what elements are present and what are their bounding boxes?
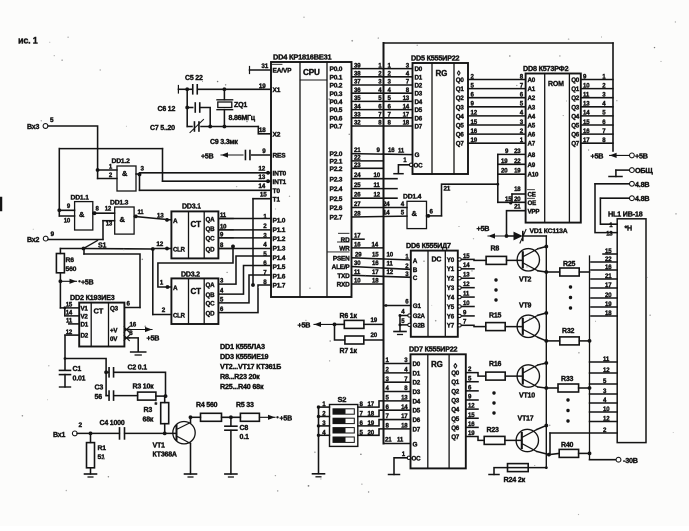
wire S2 gnd	[313, 407, 325, 477]
capacitor C3 56	[95, 385, 114, 401]
svg-text:Q0: Q0	[571, 77, 580, 84]
svg-text:25: 25	[354, 182, 361, 189]
svg-text:A8: A8	[528, 152, 536, 159]
wire 4.8V b to pin1	[600, 198, 617, 224]
svg-text:&: &	[412, 209, 418, 218]
wire T0 row	[140, 183, 272, 190]
power +5V to C9	[201, 152, 243, 160]
svg-text:17: 17	[401, 413, 408, 420]
svg-text:13: 13	[463, 272, 470, 279]
svg-text:17: 17	[605, 282, 612, 289]
svg-text:DD3.1: DD3.1	[182, 204, 201, 211]
svg-text:Q6: Q6	[451, 425, 460, 432]
svg-text:G: G	[413, 442, 418, 449]
resistor R7 1k	[335, 324, 384, 355]
svg-text:29: 29	[355, 251, 362, 258]
svg-text:P0.4: P0.4	[330, 99, 343, 106]
IC DD7 OC pin	[402, 451, 421, 463]
wire INT1 row	[163, 174, 272, 183]
svg-text:20: 20	[368, 429, 375, 436]
svg-text:17: 17	[403, 112, 410, 119]
svg-text:Q4: Q4	[451, 407, 460, 414]
svg-text:VT9: VT9	[519, 303, 532, 310]
node C5-left	[185, 87, 189, 91]
svg-text:R32: R32	[562, 328, 575, 335]
svg-text:A10: A10	[528, 172, 540, 179]
svg-text:Y4: Y4	[447, 294, 455, 301]
svg-text:15: 15	[471, 119, 478, 126]
svg-text:+5В: +5В	[477, 224, 490, 233]
wire A9 row	[498, 158, 526, 165]
wire TXD row	[352, 269, 411, 278]
resistor R15	[461, 313, 505, 331]
svg-text:68к: 68к	[143, 417, 154, 424]
wire DD5 OC gnd	[394, 165, 409, 174]
svg-text:D5: D5	[415, 107, 423, 114]
IC DD2 right pins	[110, 306, 137, 343]
svg-text:11: 11	[138, 210, 145, 216]
wire PSEN row	[352, 251, 411, 260]
IC DD8 K573RF2 body	[523, 64, 581, 223]
svg-text:33: 33	[354, 112, 361, 119]
node R1 top	[89, 432, 93, 436]
svg-text:13: 13	[403, 95, 410, 102]
svg-text:DD3.2: DD3.2	[181, 272, 200, 279]
svg-text:D1: D1	[413, 370, 421, 377]
svg-text:22: 22	[605, 256, 612, 263]
svg-text:DD8 К573РФ2: DD8 К573РФ2	[523, 64, 569, 73]
wire P2.5 row	[352, 192, 398, 199]
svg-text:D3: D3	[413, 389, 421, 396]
svg-text:QC: QC	[206, 236, 216, 243]
wire P2.3 row	[352, 172, 398, 179]
svg-text:VT1: VT1	[153, 443, 166, 450]
svg-text:17: 17	[583, 137, 590, 144]
svg-text:20: 20	[371, 332, 378, 339]
wire D2 down to C1	[64, 335, 66, 370]
svg-text:34: 34	[354, 103, 361, 110]
svg-text:17: 17	[354, 233, 361, 240]
svg-text:+5В: +5В	[280, 416, 293, 423]
svg-text:P2.4: P2.4	[330, 186, 343, 193]
svg-text:Q4: Q4	[571, 113, 580, 120]
transistor VT10	[505, 365, 539, 400]
svg-text:A4: A4	[528, 113, 536, 120]
svg-text:19: 19	[368, 420, 375, 427]
display HL1 IV-18 body	[608, 209, 646, 442]
svg-text:15: 15	[66, 303, 73, 309]
svg-text:R6 1к: R6 1к	[340, 313, 358, 320]
svg-text:11: 11	[397, 437, 404, 444]
ground VT1	[185, 474, 197, 477]
resistor R5 33	[236, 402, 259, 421]
wire VT2 collector row	[538, 270, 560, 274]
wire 0V to ground	[130, 338, 139, 352]
svg-text:14: 14	[583, 110, 590, 117]
svg-text:21: 21	[385, 437, 392, 444]
svg-text:R16: R16	[489, 361, 502, 368]
svg-text:RXD: RXD	[337, 282, 350, 289]
svg-text:+5В: +5В	[147, 334, 160, 343]
svg-text:38: 38	[354, 71, 361, 78]
wire Vx2 row	[48, 221, 103, 240]
capacitor C9 on RES	[210, 139, 271, 160]
gate DD1.3	[103, 200, 134, 235]
wire P2.7 to DD1.4	[352, 210, 408, 218]
node R3 right	[156, 394, 168, 398]
wire DD1.4 out	[426, 209, 441, 218]
svg-text:CE: CE	[528, 192, 536, 199]
resistor R23	[466, 427, 505, 444]
svg-text:КТ368А: КТ368А	[153, 452, 177, 459]
svg-text:G2A: G2A	[413, 313, 426, 320]
svg-text:18: 18	[514, 186, 521, 193]
svg-text:DD1 К555ЛА3: DD1 К555ЛА3	[220, 342, 265, 351]
svg-text:10: 10	[374, 172, 381, 179]
power +5V out R5	[259, 415, 292, 423]
svg-text:CLR: CLR	[173, 248, 186, 254]
wire WR stub	[352, 241, 384, 248]
bus collector vertical	[545, 236, 547, 468]
svg-text:19: 19	[514, 168, 521, 175]
wires DD3.1 outputs	[218, 213, 233, 249]
node X1-ZQ1	[223, 87, 227, 91]
svg-text:B: B	[413, 267, 418, 274]
svg-text:VT2: VT2	[519, 277, 532, 284]
svg-text:Q6: Q6	[571, 132, 580, 139]
svg-text:CLR: CLR	[173, 314, 186, 320]
svg-text:G1: G1	[413, 303, 422, 310]
svg-text:12: 12	[463, 281, 470, 288]
capacitor C2 0.1	[106, 365, 147, 377]
ground C8	[225, 474, 237, 477]
svg-text:15: 15	[260, 192, 267, 199]
svg-text:RD: RD	[341, 237, 350, 244]
svg-text:Q5: Q5	[456, 123, 465, 130]
svg-text:12: 12	[471, 110, 478, 117]
wire bottom rail to X2	[187, 127, 271, 135]
transistor VT9	[505, 303, 539, 338]
svg-text:OC: OC	[412, 456, 422, 463]
wires S2 left pins	[317, 401, 330, 437]
wire VT17 emitter to bus	[537, 424, 548, 430]
svg-text:VPP: VPP	[528, 208, 540, 215]
svg-text:2: 2	[79, 422, 83, 429]
svg-text:12: 12	[387, 269, 394, 276]
bus resistor vertical	[589, 256, 591, 460]
wire C7 vert	[186, 108, 188, 127]
wire DD1.1 out to DD1.3	[93, 207, 115, 216]
IC DD8 pin labels	[528, 77, 580, 215]
svg-text:+5В: +5В	[591, 151, 604, 160]
svg-text:CT: CT	[191, 220, 202, 229]
svg-text:5: 5	[50, 117, 54, 124]
svg-text:*Н: *Н	[625, 226, 633, 233]
svg-text:A0: A0	[528, 77, 536, 84]
svg-text:X1: X1	[273, 87, 281, 94]
text component list	[220, 342, 281, 391]
diode VD1 KS113A	[507, 228, 568, 243]
svg-text:ZQ1: ZQ1	[234, 102, 247, 109]
svg-text:A6: A6	[528, 132, 536, 139]
svg-text:D6: D6	[413, 417, 421, 424]
svg-text:Q1: Q1	[456, 86, 465, 93]
wire DD3.2 CLR	[153, 307, 172, 315]
gate DD1.4	[403, 194, 427, 229]
IC DD3.1 body	[171, 204, 218, 259]
svg-text:32: 32	[354, 120, 361, 127]
terminal Vx1	[53, 422, 83, 439]
svg-text:12: 12	[603, 415, 610, 422]
wire A10 row	[498, 168, 526, 175]
switch S2 body	[330, 395, 358, 446]
wires HL1 grid pins upper	[591, 248, 617, 317]
svg-text:Q0: Q0	[451, 370, 460, 377]
text figure caption	[18, 36, 38, 46]
svg-text:DD2 К193ИЕ3: DD2 К193ИЕ3	[70, 293, 115, 302]
svg-text:A7: A7	[528, 141, 536, 148]
svg-text:R8...R23 20к: R8...R23 20к	[220, 372, 260, 381]
wire C2 to R3 node	[114, 372, 166, 396]
svg-text:D2: D2	[413, 380, 421, 387]
pin 31 EA stub	[250, 63, 272, 74]
svg-text:15: 15	[605, 248, 612, 255]
svg-text:16: 16	[471, 128, 478, 135]
wire R32 to bus	[579, 339, 591, 343]
svg-text:A: A	[173, 218, 178, 225]
svg-text:23: 23	[514, 148, 521, 155]
svg-text:QB: QB	[206, 292, 216, 299]
wire VT9 collector row	[538, 337, 560, 343]
svg-text:QC: QC	[206, 301, 216, 308]
svg-text:19: 19	[371, 317, 378, 324]
svg-text:0.1: 0.1	[240, 434, 249, 441]
svg-text:560: 560	[66, 266, 77, 273]
svg-text:+5В: +5В	[81, 280, 94, 287]
svg-text:R3: R3	[144, 407, 153, 414]
svg-text:20: 20	[514, 196, 521, 203]
wire DD2 D2 row	[65, 334, 79, 336]
svg-text:Q2: Q2	[456, 95, 465, 102]
wire DD1.3 out to DD3.1 A	[134, 210, 171, 222]
svg-text:G2B: G2B	[413, 323, 426, 330]
resistor R25	[560, 261, 579, 276]
wire R25 to bus	[579, 271, 589, 273]
svg-text:15: 15	[468, 412, 475, 419]
svg-text:C4 1000: C4 1000	[100, 420, 125, 427]
svg-text:ис. 1: ис. 1	[18, 36, 38, 46]
svg-text:10: 10	[583, 82, 590, 89]
svg-text:DD6 К555ИД7: DD6 К555ИД7	[406, 241, 451, 250]
svg-text:INT0: INT0	[273, 170, 287, 177]
svg-text:D0: D0	[415, 66, 423, 73]
wires DD3.1 to P1.0-3	[218, 219, 271, 249]
svg-text:18: 18	[403, 120, 410, 127]
resistor R1 51	[87, 433, 107, 474]
svg-text:R15: R15	[489, 313, 502, 320]
wire DD1.2out to T0	[139, 175, 141, 191]
IC DD7 K555IR22 body	[409, 345, 466, 469]
wire CE stub	[512, 186, 526, 202]
svg-text:S2: S2	[338, 395, 347, 404]
wire VT9 emitter to bus	[538, 311, 548, 315]
svg-text:D0: D0	[413, 361, 421, 368]
svg-text:Q1: Q1	[451, 379, 460, 386]
svg-text:QB: QB	[206, 226, 216, 233]
svg-text:18: 18	[372, 278, 379, 285]
ground R24	[489, 468, 508, 475]
svg-text:Q3: Q3	[571, 104, 580, 111]
svg-text:P2.2: P2.2	[330, 166, 343, 173]
wire A8 row	[498, 148, 526, 155]
svg-text:QD: QD	[206, 247, 216, 254]
wire A8 vert	[497, 154, 499, 202]
wires HL1 grid pins lower	[590, 356, 618, 423]
svg-text:27: 27	[354, 201, 361, 208]
power +5V at R6	[60, 279, 93, 287]
wire DD1.4-out rail	[442, 183, 500, 216]
svg-text:16: 16	[468, 421, 475, 428]
wire DD1.2 pin2	[98, 173, 117, 179]
IC DD5 K555IR22 body	[411, 53, 468, 174]
svg-text:30: 30	[354, 260, 361, 267]
svg-text:P0.2: P0.2	[330, 83, 343, 90]
bus top rail	[384, 42, 614, 44]
svg-text:12: 12	[258, 166, 265, 173]
terminal OBShch	[609, 166, 653, 177]
wire X1 row	[178, 83, 271, 93]
svg-text:DD3 К555ИЕ19: DD3 К555ИЕ19	[220, 352, 269, 361]
wire R6 bottom	[59, 273, 63, 308]
node C2 junction	[104, 370, 108, 374]
svg-text:19: 19	[468, 430, 475, 437]
svg-text:CPU: CPU	[303, 68, 320, 77]
svg-text:VD1 КС113А: VD1 КС113А	[530, 228, 568, 235]
svg-text:RG: RG	[436, 69, 448, 78]
svg-text:X2: X2	[273, 131, 281, 138]
gate DD1.1	[59, 195, 93, 231]
svg-text:11: 11	[387, 261, 394, 268]
wire VT10 emitter to bus	[538, 361, 548, 365]
svg-text:P0.0: P0.0	[330, 66, 343, 73]
svg-text:11: 11	[463, 290, 470, 297]
wire DD3.2 A feedback	[158, 246, 233, 289]
svg-text:Вх2: Вх2	[27, 237, 39, 244]
svg-text:P2.7: P2.7	[330, 215, 343, 222]
svg-text:11: 11	[603, 356, 610, 363]
svg-text:P1.7: P1.7	[273, 283, 286, 290]
svg-text:DD4 КР1816ВЕ31: DD4 КР1816ВЕ31	[273, 53, 331, 62]
svg-text:T0: T0	[273, 188, 281, 195]
wire top rail	[59, 148, 162, 150]
resistor R3* 68k	[143, 396, 169, 424]
svg-text:10: 10	[463, 300, 470, 307]
power +5V at DD2	[130, 327, 160, 343]
svg-text:D2: D2	[415, 83, 423, 90]
svg-text:R7 1к: R7 1к	[340, 348, 358, 355]
svg-text:CT: CT	[94, 307, 104, 316]
resistor R4 560	[196, 402, 222, 421]
svg-text:P1.0: P1.0	[273, 218, 286, 225]
svg-text:17: 17	[368, 401, 375, 408]
svg-text:R25: R25	[563, 261, 576, 268]
wire 4.8V a to pin13	[595, 184, 617, 233]
svg-text:Q2: Q2	[571, 95, 580, 102]
capacitor C4 1000	[100, 420, 125, 439]
svg-text:18: 18	[259, 127, 266, 134]
svg-text:+5В: +5В	[201, 154, 214, 161]
wire C3 vert	[106, 372, 109, 395]
svg-text:DD1.2: DD1.2	[112, 158, 131, 165]
wire DD2 feedback row	[84, 249, 140, 308]
svg-text:21: 21	[605, 273, 612, 280]
wire C6 branch	[185, 89, 192, 109]
svg-text:Вх1: Вх1	[53, 432, 65, 439]
svg-text:Q4: Q4	[456, 113, 465, 120]
svg-text:13: 13	[606, 231, 613, 238]
transistor VT17	[505, 416, 539, 452]
svg-text:16: 16	[372, 260, 379, 267]
svg-text:Q3: Q3	[451, 397, 460, 404]
terminal Vx2	[27, 231, 55, 244]
wire R3* to base	[163, 424, 167, 436]
IC DD3.2 body	[171, 272, 218, 325]
IC DD2 left pins	[60, 303, 88, 340]
svg-text:0V: 0V	[110, 336, 118, 343]
svg-text:Q1: Q1	[571, 86, 580, 93]
resistor R6 560	[56, 254, 76, 274]
gate DD1.2	[112, 158, 137, 191]
svg-text:10: 10	[64, 219, 71, 225]
svg-text:P2.6: P2.6	[330, 205, 343, 212]
svg-text:24: 24	[383, 201, 390, 208]
svg-text:Q0: Q0	[456, 77, 465, 84]
wires DD8 outputs to bus	[581, 73, 613, 144]
svg-text:D1: D1	[81, 322, 89, 329]
svg-text:A9: A9	[528, 162, 536, 169]
svg-text:36: 36	[354, 87, 361, 94]
terminal -30V	[590, 456, 638, 465]
svg-text:Q5: Q5	[571, 123, 580, 130]
svg-text:Q7: Q7	[571, 141, 580, 148]
svg-text:&: &	[120, 215, 126, 224]
wire DD3.1 CLR	[153, 241, 172, 250]
wire DD2 D1 row	[69, 323, 79, 325]
svg-text:P2.3: P2.3	[330, 176, 343, 183]
svg-text:R5 33: R5 33	[236, 402, 254, 409]
svg-text:CT: CT	[191, 287, 202, 296]
svg-text:Y7: Y7	[447, 323, 455, 330]
svg-text:Q5: Q5	[451, 416, 460, 423]
svg-text:Y5: Y5	[447, 304, 455, 311]
svg-text:DD1.1: DD1.1	[71, 195, 90, 202]
svg-text:39: 39	[354, 62, 361, 69]
svg-text:4.8В: 4.8В	[635, 180, 649, 189]
svg-text:V1: V1	[81, 306, 89, 313]
terminal 4.8V b	[600, 194, 649, 203]
svg-text:12: 12	[374, 192, 381, 199]
svg-text:12: 12	[105, 207, 112, 213]
svg-text:P1.6: P1.6	[273, 273, 286, 280]
wire RD stub	[352, 233, 365, 240]
wire ALE row	[352, 260, 411, 269]
svg-text:Y3: Y3	[447, 285, 455, 292]
svg-text:28: 28	[354, 211, 361, 218]
svg-text:RG: RG	[431, 360, 443, 369]
wire S1 to R6	[59, 249, 61, 254]
resistor R6 1k	[335, 313, 384, 328]
wire P2.2 stub	[352, 162, 384, 169]
